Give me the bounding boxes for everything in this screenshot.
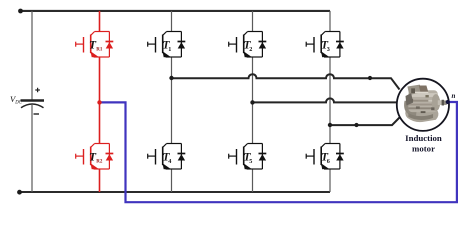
svg-text:1: 1: [168, 46, 171, 53]
svg-text:R2: R2: [96, 159, 103, 164]
svg-text:motor: motor: [412, 144, 435, 154]
svg-text:4: 4: [168, 158, 171, 165]
svg-text:2: 2: [249, 46, 252, 53]
svg-text:3: 3: [327, 46, 330, 53]
svg-text:DC: DC: [14, 101, 22, 106]
svg-text:Induction: Induction: [405, 133, 442, 143]
svg-text:6: 6: [327, 158, 330, 165]
svg-text:n: n: [452, 92, 456, 100]
svg-text:5: 5: [249, 158, 252, 165]
svg-text:R1: R1: [96, 47, 103, 52]
